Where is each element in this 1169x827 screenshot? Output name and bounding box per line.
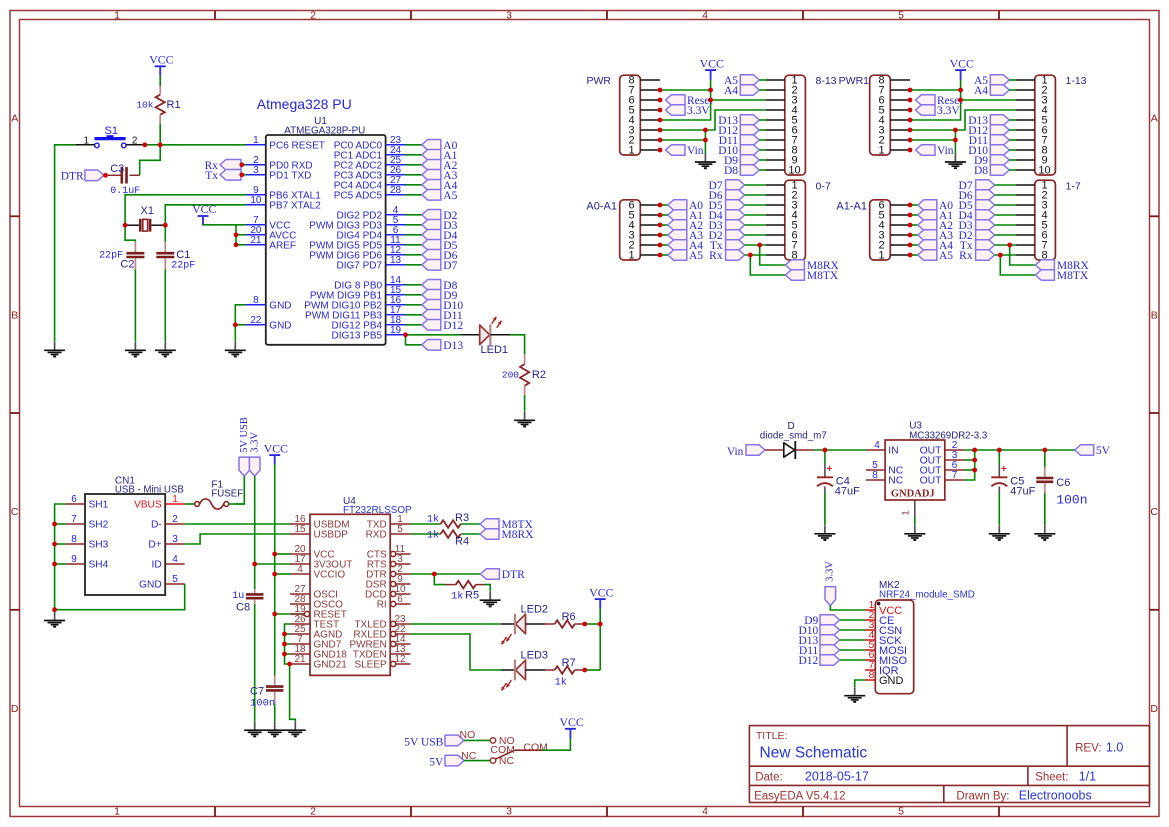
wire to flag	[910, 254, 918, 256]
wire U1 to net flag A3	[406, 174, 422, 176]
wire A4 to header	[759, 89, 766, 91]
wire D9 to header	[759, 159, 766, 161]
wire U1 pin9 XTAL1 to crystal	[125, 195, 246, 225]
svg-text:R1: R1	[167, 99, 181, 111]
svg-text:1.0: 1.0	[1106, 740, 1123, 754]
svg-text:LED1: LED1	[481, 344, 509, 356]
svg-text:D8: D8	[724, 165, 738, 177]
junction CN1 gnd	[52, 607, 57, 612]
wire TXLED to LED2	[411, 623, 501, 625]
wire A5 to header	[759, 79, 766, 81]
junction Rx-M8TX	[748, 253, 753, 258]
MK2 pin 2 CE	[865, 619, 875, 621]
wire row6 to header pin3	[961, 99, 1016, 101]
wire VCC rail to VCCIO	[274, 554, 276, 574]
svg-text:8: 8	[869, 670, 875, 681]
svg-text:D+: D+	[148, 540, 161, 551]
wire U1 to net flag A5	[406, 194, 422, 196]
wire D12 to header	[759, 129, 766, 131]
svg-text:D12: D12	[443, 320, 463, 332]
net flag A4	[422, 180, 441, 191]
wire U1 to net flag D10	[406, 304, 422, 306]
svg-text:B: B	[11, 309, 18, 321]
junction A0-A1 pin 1	[658, 253, 663, 258]
junction PWR1 pin3	[908, 128, 913, 133]
wire gnd rail down	[954, 130, 956, 154]
svg-text:1: 1	[172, 494, 178, 505]
U4 pin 9 DSR	[391, 581, 396, 586]
wire Tx down to M8RX flag	[760, 245, 786, 265]
capacitor C1 22pF	[164, 242, 166, 253]
junction C4	[823, 448, 828, 453]
svg-text:1: 1	[628, 250, 634, 262]
svg-text:USBDP: USBDP	[314, 530, 349, 541]
CN1 pin 8 SH3	[65, 543, 85, 545]
svg-text:PWR1: PWR1	[839, 75, 869, 87]
wire 5V USB down to fuse	[236, 476, 245, 504]
wire D5 to header	[745, 204, 766, 206]
svg-text:M8TX: M8TX	[807, 270, 839, 282]
svg-text:Vin: Vin	[727, 446, 744, 458]
svg-text:47uF: 47uF	[1010, 485, 1035, 497]
junction PWR pin3	[658, 128, 663, 133]
ground (C8)	[254, 722, 256, 731]
svg-text:Electronoobs: Electronoobs	[1019, 789, 1092, 803]
connector 1-7 8-pin header	[1035, 180, 1056, 260]
wire to flag	[910, 244, 918, 246]
svg-text:19: 19	[390, 325, 402, 336]
U4 pin 1 TXD	[390, 523, 410, 525]
wire R6 to VCC rail	[585, 623, 601, 625]
net flag Reset (PWR)	[666, 95, 686, 106]
svg-text:NC: NC	[888, 476, 904, 487]
junction pin3-gnd rail	[703, 128, 708, 133]
net flag A2 (A1-A1)	[918, 220, 937, 231]
CN1 pin 7 SH2	[65, 523, 85, 525]
resistor R1 10k	[159, 86, 161, 95]
svg-text:10: 10	[788, 165, 800, 177]
svg-text:1: 1	[901, 510, 912, 515]
ground (S1 rail)	[54, 342, 56, 351]
MK2 pin 1 VCC	[865, 609, 875, 611]
junction A1-A1 pin 1	[908, 253, 913, 258]
junction A0-A1 pin 3	[658, 233, 663, 238]
svg-text:DTR: DTR	[502, 569, 525, 581]
connector 8-13 10-pin header	[785, 75, 806, 175]
junction DTR-C3	[103, 173, 108, 178]
net flag M8TX	[785, 270, 804, 281]
svg-text:21: 21	[250, 235, 262, 246]
wire D10 to header	[1009, 149, 1016, 151]
svg-text:TITLE:: TITLE:	[756, 730, 788, 742]
wire pin3 step up to header pin4	[910, 110, 1016, 130]
wire C5 down	[998, 450, 1000, 464]
wire pin19 to D13 flag	[406, 335, 422, 345]
wire U1 pin22 GND	[235, 324, 246, 326]
svg-text:VCCIO: VCCIO	[314, 570, 346, 581]
switch COM arm	[495, 750, 515, 759]
svg-text:28: 28	[390, 185, 402, 196]
svg-text:D7: D7	[443, 260, 457, 272]
svg-text:12: 12	[394, 654, 406, 665]
wire U1 to net flag D12	[406, 324, 422, 326]
wire GND21 to ground	[290, 664, 296, 722]
capacitor C7 100n	[274, 676, 276, 686]
capacitor C3 0.1uF	[130, 174, 140, 176]
svg-text:4: 4	[874, 440, 880, 451]
svg-text:A5: A5	[689, 250, 703, 262]
wire VCC to U4 pin4	[275, 573, 290, 575]
junction PWR1 pin1	[908, 148, 913, 153]
svg-text:RI: RI	[377, 600, 387, 611]
svg-text:R4: R4	[455, 536, 469, 548]
capacitor C5 47uF polarized	[998, 464, 1000, 477]
junction R7 out	[582, 668, 587, 673]
connector A0-A1 6-pin header	[620, 200, 641, 260]
U1 pin 20 AVCC	[246, 234, 266, 236]
svg-text:PB7 XTAL2: PB7 XTAL2	[269, 200, 321, 211]
svg-text:C6: C6	[1056, 477, 1070, 489]
svg-text:OUT: OUT	[920, 476, 943, 487]
U4 pin 18 GND18	[290, 653, 310, 655]
svg-text:C: C	[1150, 506, 1158, 518]
wire C4 down	[824, 450, 826, 464]
svg-text:100n: 100n	[1056, 493, 1087, 508]
LED1	[461, 334, 480, 336]
svg-text:D: D	[11, 703, 19, 715]
wire U3 gnd	[914, 518, 916, 526]
U1 pin 14 DIG 8 PB0	[386, 284, 406, 286]
net flag Tx	[220, 170, 241, 181]
svg-text:6: 6	[71, 494, 77, 505]
net flag D13	[422, 340, 441, 351]
wire GND18 stub	[285, 653, 291, 655]
wire 5V rail	[975, 449, 1075, 451]
svg-text:6: 6	[397, 594, 403, 605]
U4 pin 23 TXLED	[391, 621, 396, 626]
U4 pin 7 GND7	[290, 643, 310, 645]
wire C7 to ground	[274, 705, 276, 722]
wire RXD to R4	[411, 533, 440, 535]
svg-text:SH2: SH2	[89, 520, 109, 531]
wire D9 to MK2	[840, 619, 865, 621]
svg-text:9: 9	[71, 554, 77, 565]
wire U1 pin10 XTAL2 to crystal	[165, 205, 246, 225]
junction crystal left	[123, 223, 128, 228]
CN1 pin 5 GND	[165, 583, 185, 585]
connector PWR1 8-pin header	[870, 75, 891, 155]
svg-text:DTR: DTR	[61, 170, 84, 182]
net flag DTR (reset cap)	[85, 170, 104, 181]
U1 pin 15 PWM DIG9 PB1	[386, 294, 406, 296]
wire DTR pin out	[411, 573, 481, 575]
U1 pin 23 PC0 ADC0	[386, 144, 406, 146]
svg-text:B: B	[1151, 309, 1158, 321]
svg-text:21: 21	[294, 654, 306, 665]
wire VCC rail down to pin4 row	[910, 80, 961, 121]
wire D6 to header	[995, 194, 1016, 196]
svg-text:+: +	[1001, 464, 1007, 475]
net flag D12	[422, 320, 441, 331]
wire SH stub	[55, 563, 66, 565]
IC MK2 NRF24_module_SMD body	[875, 600, 913, 694]
junction PWR pin2	[658, 138, 663, 143]
U3 pin 6 OUT	[945, 469, 965, 471]
wire D9 to header	[1009, 159, 1016, 161]
CN1 pin 9 SH4	[65, 563, 85, 565]
net flag DTR (U4)	[480, 569, 499, 580]
U4 pin 5 RXD	[390, 533, 410, 535]
wire U1 to net flag D7	[406, 264, 422, 266]
frame column ticks bottom	[214, 807, 216, 817]
net flag D10	[422, 300, 441, 311]
wire MK2 GND to ground	[855, 680, 865, 687]
IC U4 FT232RLSSOP body	[310, 514, 390, 675]
wire crystal left to C2	[125, 225, 135, 241]
wire C4 to ground	[824, 493, 826, 525]
net flag A2 (A0-A1)	[668, 220, 687, 231]
net flag D2	[422, 210, 441, 221]
wire VCC to U4 pin19 RESET	[275, 613, 305, 615]
svg-text:REV:: REV:	[1075, 742, 1101, 754]
MK2 pin 7 IQR	[865, 669, 875, 671]
wire D6 to header	[745, 194, 766, 196]
svg-text:22: 22	[250, 315, 262, 326]
junction Tx pin	[239, 172, 244, 177]
junction VCC rail row6	[708, 98, 713, 103]
svg-text:RXD: RXD	[366, 530, 387, 541]
svg-text:COM: COM	[523, 741, 548, 753]
net flag A0	[422, 140, 441, 151]
U4 pin 17 3V3OUT	[290, 563, 310, 565]
wire reset node to U1 pin1	[160, 144, 246, 146]
wire R7 to VCC rail	[585, 669, 601, 671]
wire 5V to NC	[464, 760, 490, 762]
svg-text:8: 8	[253, 295, 259, 306]
svg-text:Drawn By:: Drawn By:	[956, 791, 1009, 803]
capacitor C4 47uF polarized	[824, 464, 826, 477]
net flag A0 (A1-A1)	[918, 200, 937, 211]
svg-text:5V USB: 5V USB	[239, 417, 250, 453]
svg-text:SH1: SH1	[89, 500, 109, 511]
U4 pin 27 OSCI	[290, 593, 310, 595]
connector PWR 8-pin header	[620, 75, 641, 155]
wire D5 to header	[995, 204, 1016, 206]
svg-text:D: D	[1150, 703, 1158, 715]
svg-text:R3: R3	[455, 512, 469, 524]
svg-text:A5: A5	[939, 250, 953, 262]
junction A0-A1 pin 6	[658, 203, 663, 208]
junction R6 out	[582, 622, 587, 627]
wire to U1 pin21	[236, 244, 246, 246]
svg-text:IN: IN	[888, 446, 898, 457]
svg-text:2: 2	[172, 514, 178, 525]
svg-text:Date:: Date:	[755, 772, 783, 784]
svg-text:2018-05-17: 2018-05-17	[805, 770, 869, 784]
svg-text:M8RX: M8RX	[502, 529, 535, 541]
wire D7 to header	[995, 184, 1016, 186]
svg-text:1-13: 1-13	[1066, 75, 1087, 87]
net flag A3	[422, 170, 441, 181]
net flag D9	[422, 290, 441, 301]
wire U1 to net flag D5	[406, 244, 422, 246]
svg-text:A: A	[11, 113, 18, 125]
title block	[749, 726, 1149, 803]
junction PWR1 pin6	[908, 98, 913, 103]
svg-text:New Schematic: New Schematic	[760, 744, 868, 761]
junction A1-A1 pin 2	[908, 243, 913, 248]
U4 pin 16 USBDM	[290, 523, 310, 525]
net flag D11	[422, 310, 441, 321]
U3 pin 2 OUT	[945, 449, 965, 451]
svg-text:47uF: 47uF	[835, 485, 860, 497]
junction crystal right	[163, 223, 168, 228]
wire VCC rail to RESET	[274, 574, 276, 614]
ground (U4)	[294, 722, 296, 731]
svg-text:1: 1	[628, 145, 634, 157]
wire C5 to ground	[998, 493, 1000, 525]
junction VCC rail LED2	[598, 622, 603, 627]
svg-text:5V: 5V	[1096, 445, 1111, 457]
svg-text:M8TX: M8TX	[1057, 270, 1089, 282]
svg-text:1k: 1k	[555, 677, 567, 689]
ground (PWR)	[704, 154, 706, 163]
U4 pin 4 VCCIO	[290, 573, 310, 575]
wire VCC to U4 pin20	[275, 553, 290, 555]
wire R2 to ground	[524, 395, 526, 411]
net flag A2	[422, 160, 441, 171]
CN1 pin 6 SH1	[65, 503, 85, 505]
resistor R4 1k	[439, 533, 440, 535]
net flag A4 (A1-A1)	[918, 240, 937, 251]
wire pin3 step up to header pin4	[660, 110, 766, 130]
svg-text:GND: GND	[139, 580, 162, 591]
svg-text:VCC: VCC	[589, 585, 613, 599]
junction DTR-R5	[432, 572, 437, 577]
svg-text:DIG13 PB5: DIG13 PB5	[332, 330, 383, 341]
svg-text:D12: D12	[798, 655, 818, 667]
svg-text:C1: C1	[176, 249, 190, 261]
U4 TEST/AGND/GND chain	[285, 624, 291, 664]
U4 pin 10 DCD	[391, 591, 396, 596]
junction PWR1 pin2	[908, 138, 913, 143]
wire Tx flag to U1 pin3	[241, 174, 246, 176]
CN1 pin 4 ID	[165, 563, 185, 565]
U1 pin 17 PWM DIG11 PB3	[386, 314, 406, 316]
resistor R6	[545, 623, 555, 625]
wire Rx flag to U1 pin2	[241, 164, 246, 166]
wire U1 to net flag A0	[406, 144, 422, 146]
svg-text:SH3: SH3	[89, 540, 109, 551]
svg-text:0-7: 0-7	[816, 181, 831, 193]
svg-text:VBUS: VBUS	[134, 500, 162, 511]
wire pin2 to gnd rail	[910, 139, 955, 141]
wire VCC rail down	[274, 465, 276, 555]
svg-text:VCC: VCC	[950, 56, 974, 70]
wire U1 to net flag D11	[406, 314, 422, 316]
net flag D3	[422, 220, 441, 231]
wire D10 to header	[759, 149, 766, 151]
svg-text:3: 3	[172, 534, 178, 545]
U1 pin 21 AREF	[246, 244, 266, 246]
U1 pin 4 DIG2 PD2	[386, 214, 406, 216]
svg-text:Vin: Vin	[687, 145, 704, 157]
svg-text:A5: A5	[443, 190, 457, 202]
wire C6 to ground	[1044, 493, 1046, 525]
wire C2 to ground	[134, 270, 136, 342]
junction A1-A1 pin 4	[908, 223, 913, 228]
CN1 pin 3 D+	[165, 543, 185, 545]
wire D12 to MK2	[840, 659, 865, 661]
svg-text:1k: 1k	[427, 514, 439, 526]
svg-text:200: 200	[502, 370, 519, 381]
ground (C2)	[134, 342, 136, 351]
junction gnd rail pin2	[953, 138, 958, 143]
svg-text:4: 4	[172, 554, 178, 565]
resistor R3 1k	[439, 523, 440, 525]
svg-text:1k: 1k	[451, 591, 463, 603]
wire U1 to net flag D9	[406, 294, 422, 296]
wire U1 to net flag A1	[406, 154, 422, 156]
ground (R2)	[524, 412, 526, 421]
U4 pin 15 USBDP	[290, 533, 310, 535]
capacitor C8 1u	[254, 589, 256, 593]
net flag Rx	[220, 160, 241, 171]
U4 pin 2 DTR	[391, 571, 396, 576]
svg-text:PWR: PWR	[587, 75, 612, 87]
wire U1 to net flag D4	[406, 234, 422, 236]
wire GND7 stub	[285, 643, 291, 645]
svg-text:5V: 5V	[429, 757, 444, 769]
svg-text:ID: ID	[152, 560, 162, 571]
svg-text:3.3V: 3.3V	[937, 105, 960, 117]
junction OUT2	[972, 448, 977, 453]
ground (PWR1)	[954, 154, 956, 163]
junction 3V3OUT	[252, 562, 257, 567]
junction VCC-pin7	[958, 88, 963, 93]
svg-text:Atmega328 PU: Atmega328 PU	[257, 96, 352, 112]
svg-text:3.3V: 3.3V	[687, 105, 710, 117]
junction GND pin22	[233, 322, 238, 327]
svg-text:NO: NO	[460, 729, 476, 741]
MK2 pin 4 SCK	[865, 639, 875, 641]
wire A4 to header	[1009, 89, 1016, 91]
wire to flag	[660, 204, 668, 206]
junction C6	[1042, 448, 1047, 453]
svg-text:EasyEDA V5.4.12: EasyEDA V5.4.12	[754, 791, 845, 803]
svg-text:7: 7	[71, 514, 77, 525]
svg-text:PC6 RESET: PC6 RESET	[269, 140, 325, 151]
U1 pin 9 PB6 XTAL1	[246, 194, 266, 196]
svg-text:VCC: VCC	[264, 441, 288, 455]
U4 pin 6 RI	[391, 601, 396, 606]
junction Rx pin	[239, 162, 244, 167]
U1 pin 2 PD0 RXD	[246, 164, 266, 166]
U4 pin 3 RTS	[391, 561, 396, 566]
svg-text:1: 1	[878, 250, 884, 262]
ground (C4)	[824, 525, 826, 534]
svg-text:C: C	[11, 506, 19, 518]
svg-text:C7: C7	[250, 686, 264, 698]
svg-text:A: A	[1151, 113, 1158, 125]
junction PWR pin6	[658, 98, 663, 103]
wire to flag	[660, 234, 668, 236]
wire D11 to header	[759, 139, 766, 141]
connector 0-7 8-pin header	[785, 180, 806, 260]
U1 pin 27 PC4 ADC4	[386, 184, 406, 186]
ground (R5)	[489, 592, 491, 601]
junction PWR pin1	[658, 148, 663, 153]
